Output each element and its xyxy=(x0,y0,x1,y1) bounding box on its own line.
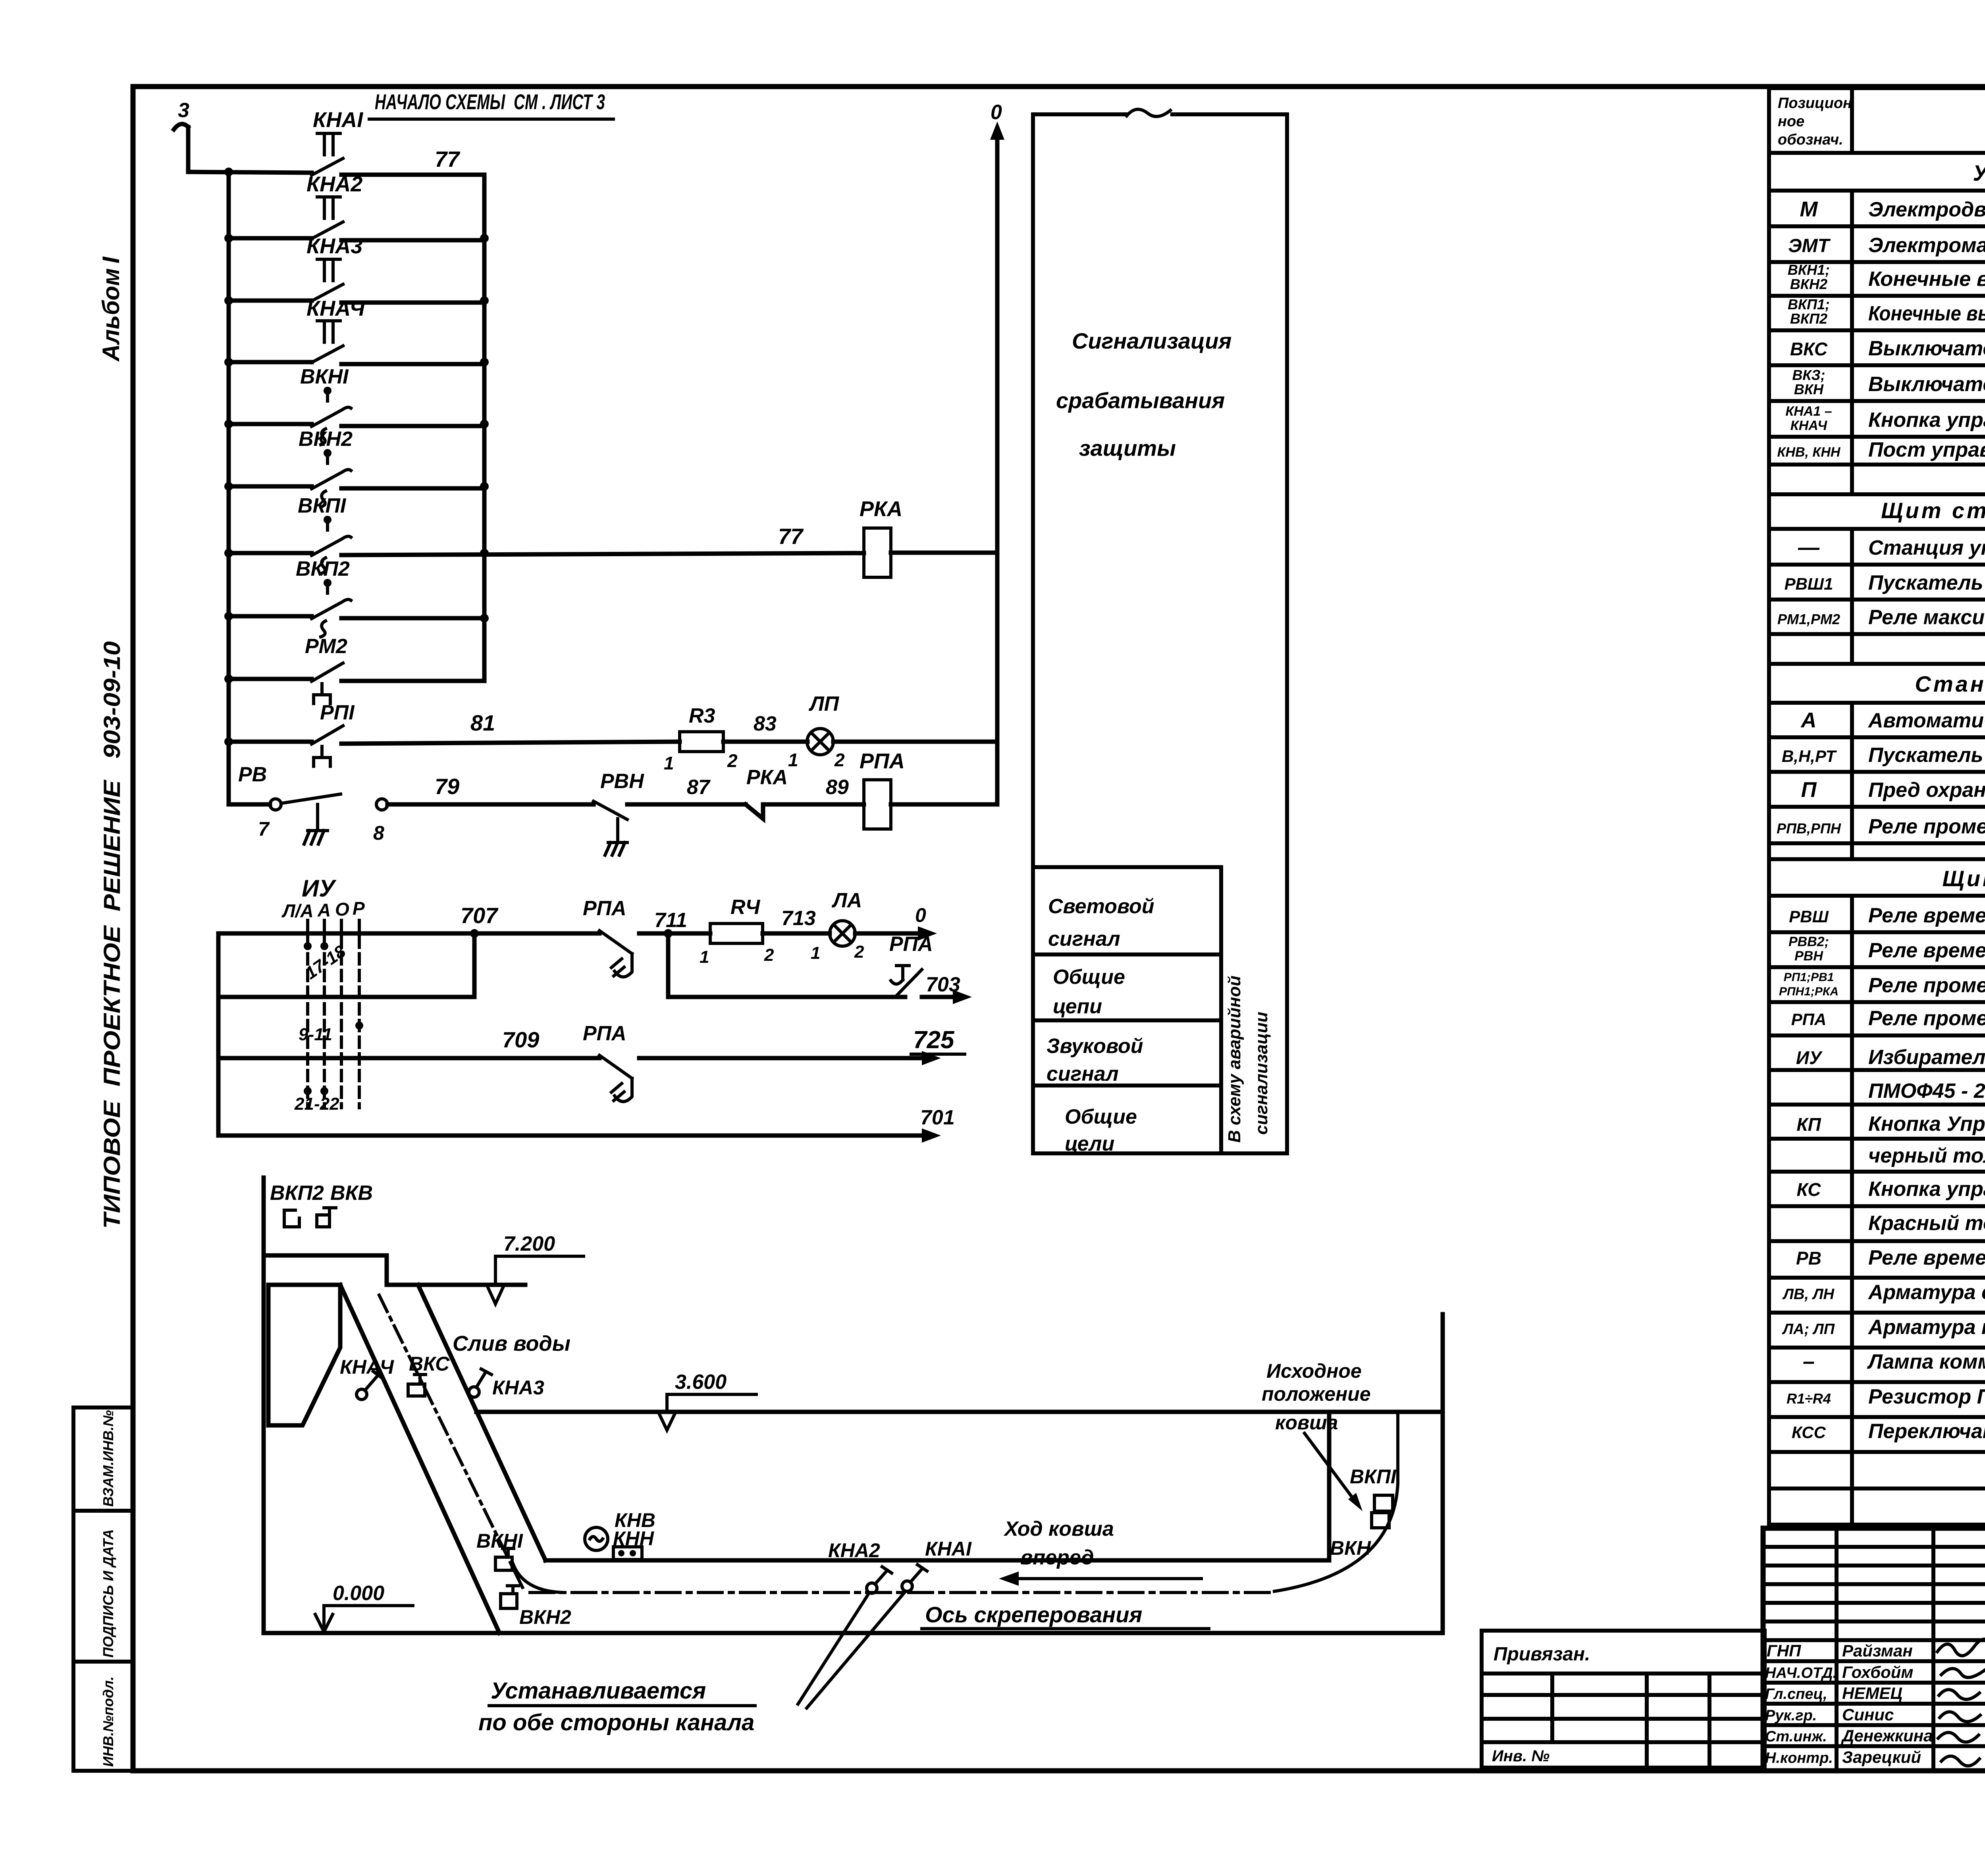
svg-text:Пред охранитель: Пред охранитель xyxy=(1868,779,1985,802)
svg-text:Привязан.: Привязан. xyxy=(1494,1644,1590,1665)
svg-text:ковша: ковша xyxy=(1275,1411,1338,1434)
svg-text:ВКП2: ВКП2 xyxy=(1790,310,1827,327)
svg-text:Избиратель управления: Избиратель управления xyxy=(1868,1046,1985,1069)
sketch: incline center dash-dot path xyxy=(379,1295,523,1589)
svg-text:КНВ, КНН: КНВ, КНН xyxy=(1777,445,1841,460)
svg-text:КНАЧ: КНАЧ xyxy=(1790,418,1827,433)
svg-text:РВН: РВН xyxy=(1794,949,1823,964)
svg-text:Слив воды: Слив воды xyxy=(453,1332,570,1355)
svg-text:–: – xyxy=(1803,1350,1815,1373)
svg-text:ПМОФ45 - 222555/П -Д12: ПМОФ45 - 222555/П -Д12 xyxy=(1868,1080,1985,1103)
svg-text:РПВ,РПН: РПВ,РПН xyxy=(1777,820,1841,837)
svg-text:В,Н,РТ: В,Н,РТ xyxy=(1782,747,1837,765)
svg-text:НАЧ.ОТД.: НАЧ.ОТД. xyxy=(1765,1665,1837,1681)
svg-text:ВЗАМ.ИНВ.№: ВЗАМ.ИНВ.№ xyxy=(100,1410,116,1507)
svg-text:Рук.гр.: Рук.гр. xyxy=(1765,1707,1817,1724)
svg-text:У механизма: У механизма xyxy=(1973,160,1985,185)
branch 711 down to 703 xyxy=(668,933,905,997)
sketch: canal inner bottom and right wall xyxy=(545,1412,1329,1560)
svg-text:Альбом I: Альбом I xyxy=(98,256,124,362)
svg-text:РВВ2;: РВВ2; xyxy=(1788,934,1829,949)
pointer lines to note xyxy=(798,1592,905,1708)
svg-text:КСС: КСС xyxy=(1792,1423,1826,1442)
wire rung KHA3 xyxy=(229,301,484,303)
svg-text:Щит станций управления: Щит станций управления xyxy=(1881,498,1985,523)
svg-text:Арматура коммутаторной лампы: Арматура коммутаторной лампы АСКМ xyxy=(1867,1316,1985,1339)
svg-text:обознач.: обознач. xyxy=(1778,131,1843,148)
svg-text:М: М xyxy=(1800,197,1818,221)
svg-text:РКА: РКА xyxy=(746,766,788,789)
svg-text:ВКНI: ВКНI xyxy=(300,365,349,388)
svg-text:П: П xyxy=(1801,778,1817,802)
svg-text:Конечные выключатели натяжки: Конечные выключатели натяжки ВК-200Б xyxy=(1868,268,1985,291)
svg-text:Пускатель магнитный: Пускатель магнитный xyxy=(1868,744,1985,767)
svg-text:защиты: защиты xyxy=(1079,436,1176,461)
svg-text:1: 1 xyxy=(811,943,820,963)
svg-text:РПН1;РКА: РПН1;РКА xyxy=(1779,985,1839,998)
svg-text:ЛП: ЛП xyxy=(808,692,840,715)
svg-text:Реле времени РВП72 -3221: Реле времени РВП72 -3221 xyxy=(1868,939,1985,962)
svg-text:89: 89 xyxy=(826,776,849,799)
svg-text:Реле времени РВП 72 -3222: Реле времени РВП 72 -3222 xyxy=(1868,904,1985,927)
svg-text:1: 1 xyxy=(788,750,798,770)
svg-text:713: 713 xyxy=(781,907,816,930)
svg-text:ИУ: ИУ xyxy=(1796,1047,1823,1068)
svg-text:ВКЗ;: ВКЗ; xyxy=(1792,367,1825,383)
svg-text:Резистор ПЭ-25: Резистор ПЭ-25 xyxy=(1868,1385,1985,1408)
wire rung VKP1 = net 77 to RKA coil xyxy=(229,553,864,555)
svg-text:3: 3 xyxy=(178,99,189,122)
svg-text:ИУ: ИУ xyxy=(302,875,337,902)
sketch: foundation pentagon xyxy=(268,1285,340,1425)
svg-text:1: 1 xyxy=(664,753,674,773)
svg-text:КНА1 –: КНА1 – xyxy=(1785,404,1832,419)
svg-text:Конечные выключатели переподъ: Конечные выключатели переподъема ВК-200Б xyxy=(1868,302,1985,325)
svg-text:цепи: цепи xyxy=(1053,995,1102,1018)
junction dots left rail xyxy=(224,168,233,176)
svg-text:Сигнализация: Сигнализация xyxy=(1072,328,1231,353)
svg-text:Переключатель ПМОФ90-111111: Переключатель ПМОФ90-111111/П-Д42 xyxy=(1868,1420,1985,1443)
svg-text:НАЧАЛО СХЕМЫ СМ . ЛИСТ 3: НАЧАЛО СХЕМЫ СМ . ЛИСТ 3 xyxy=(375,90,605,114)
svg-text:Исходное: Исходное xyxy=(1266,1360,1362,1382)
svg-text:0: 0 xyxy=(915,904,926,926)
svg-text:ИНВ.№подл.: ИНВ.№подл. xyxy=(100,1676,116,1767)
svg-text:КП: КП xyxy=(1796,1114,1821,1135)
wire row 709 xyxy=(218,1056,931,1060)
svg-text:707: 707 xyxy=(461,903,499,928)
svg-text:ВКВ: ВКВ xyxy=(330,1182,373,1205)
svg-text:КНА3: КНА3 xyxy=(492,1377,544,1399)
svg-text:Кнопка управления КЕ011-У3: Кнопка управления КЕ011-У3 xyxy=(1868,1178,1985,1201)
svg-text:Арматура сигнальной лампы АСКМ: Арматура сигнальной лампы АСКМ xyxy=(1867,1281,1985,1304)
wire row 707 xyxy=(218,931,710,936)
svg-text:ВКН2: ВКН2 xyxy=(1790,276,1827,292)
svg-text:РПА: РПА xyxy=(583,1022,626,1045)
svg-text:КНАЧ: КНАЧ xyxy=(340,1356,394,1378)
svg-text:709: 709 xyxy=(502,1027,539,1052)
svg-text:7.200: 7.200 xyxy=(503,1232,555,1255)
svg-text:ВКП1;: ВКП1; xyxy=(1788,296,1830,312)
svg-text:ЛА; ЛП: ЛА; ЛП xyxy=(1782,1321,1835,1338)
pushbutton post KNV KNN xyxy=(585,1527,608,1550)
svg-text:РМ2: РМ2 xyxy=(305,635,347,658)
right rail xyxy=(482,175,487,679)
left stamp strip xyxy=(73,1407,133,1771)
svg-text:Реле промежуточное РПУ·1-36: Реле промежуточное РПУ·1-363 xyxy=(1868,974,1985,997)
wire rung RP1 = net 81 to R3 and LP lamp xyxy=(229,742,680,744)
svg-text:НЕМЕЦ: НЕМЕЦ xyxy=(1842,1684,1902,1702)
wire row 701 xyxy=(218,1134,931,1138)
svg-text:Кнопка Управления КЕ-011У3: Кнопка Управления КЕ-011У3 xyxy=(1868,1112,1985,1136)
svg-text:РКА: РКА xyxy=(860,497,902,521)
svg-text:ВКП2: ВКП2 xyxy=(296,557,350,580)
svg-text:Денежкина: Денежкина xyxy=(1841,1726,1933,1745)
svg-text:О: О xyxy=(335,899,349,920)
svg-text:Ход ковша: Ход ковша xyxy=(1003,1517,1114,1541)
svg-text:положение: положение xyxy=(1262,1383,1371,1405)
svg-text:Станция управления: Станция управления xyxy=(1915,671,1985,696)
svg-text:КНАI: КНАI xyxy=(313,108,363,132)
svg-text:Выключатель конечный слива: Выключатель конечный слива ВК-200Б xyxy=(1868,337,1985,360)
svg-text:А: А xyxy=(1800,708,1817,732)
svg-text:Инв. №: Инв. № xyxy=(1492,1747,1549,1765)
privyazan box xyxy=(1482,1631,1765,1768)
IU closure dots xyxy=(304,942,312,950)
wire rung KHA2 xyxy=(229,238,484,240)
wire rung VKH1 xyxy=(229,424,484,426)
svg-text:9-11: 9-11 xyxy=(299,1025,332,1044)
svg-text:Выключатель конечный ВК-200: Выключатель конечный ВК-200Б xyxy=(1868,373,1985,396)
svg-text:2: 2 xyxy=(727,750,738,771)
svg-text:Электромагнит тормоза МО-100: Электромагнит тормоза МО-100Б xyxy=(1868,234,1985,257)
svg-text:ВКН2: ВКН2 xyxy=(519,1606,571,1628)
svg-text:срабатывания: срабатывания xyxy=(1056,388,1225,413)
svg-text:КНА2: КНА2 xyxy=(306,172,362,196)
IU column dashed lines xyxy=(306,920,309,1108)
svg-text:Зарецкий: Зарецкий xyxy=(1842,1748,1921,1766)
signal box rows xyxy=(1033,867,1221,1153)
svg-text:РПА: РПА xyxy=(1791,1010,1827,1029)
svg-text:А: А xyxy=(317,900,331,920)
svg-text:КНАЧ: КНАЧ xyxy=(306,297,366,320)
svg-text:Пост управления кнопочный ПКЕ: Пост управления кнопочный ПКЕ222-2У2 xyxy=(1868,438,1985,461)
svg-text:21-22: 21-22 xyxy=(294,1094,339,1114)
svg-text:0.000: 0.000 xyxy=(333,1582,384,1605)
wire rung RM2 xyxy=(229,679,484,681)
svg-text:ВКС: ВКС xyxy=(1790,339,1828,359)
svg-text:Пускатель магнитный ПМЕ-211: Пускатель магнитный ПМЕ-211 xyxy=(1868,571,1985,594)
svg-text:ВКН: ВКН xyxy=(1330,1537,1371,1559)
svg-text:ЛВ, ЛН: ЛВ, ЛН xyxy=(1782,1286,1835,1303)
svg-text:сигнализации: сигнализации xyxy=(1252,1012,1271,1135)
svg-text:ВКН: ВКН xyxy=(1794,381,1824,397)
svg-text:РВ: РВ xyxy=(1796,1248,1821,1269)
svg-text:Ст.инж.: Ст.инж. xyxy=(1765,1728,1827,1745)
svg-text:ВКС: ВКС xyxy=(409,1353,450,1375)
svg-text:87: 87 xyxy=(687,776,711,799)
svg-text:711: 711 xyxy=(654,909,687,932)
svg-text:РПА: РПА xyxy=(860,749,905,773)
IU left rail xyxy=(216,933,221,1136)
svg-text:РВ: РВ xyxy=(238,763,267,786)
svg-text:Реле максимального тока РЭВ: Реле максимального тока РЭВ-202 xyxy=(1868,606,1985,629)
svg-text:вперед: вперед xyxy=(1020,1546,1094,1569)
svg-text:ВКН1;: ВКН1; xyxy=(1788,262,1830,278)
svg-text:ГНП: ГНП xyxy=(1767,1641,1801,1660)
svg-text:КС: КС xyxy=(1797,1179,1821,1200)
sketch: canal top line 3.600 xyxy=(476,1410,1443,1414)
svg-text:Позицион: Позицион xyxy=(1778,95,1852,112)
svg-text:Кнопка управления ПКУ15-19.11: Кнопка управления ПКУ15-19.111-54У2 xyxy=(1868,409,1985,432)
svg-text:ЛА: ЛА xyxy=(831,889,862,912)
svg-text:ВКПI: ВКПI xyxy=(1350,1465,1397,1488)
svg-text:2: 2 xyxy=(834,750,845,770)
svg-text:ВКНI: ВКНI xyxy=(476,1530,523,1552)
svg-text:Гохбойм: Гохбойм xyxy=(1842,1663,1913,1681)
svg-text:ПОДПИСЬ И ДАТА: ПОДПИСЬ И ДАТА xyxy=(100,1529,116,1658)
svg-text:8: 8 xyxy=(373,822,384,844)
parts table grid xyxy=(1769,88,1985,1525)
svg-text:КНА3: КНА3 xyxy=(306,234,362,258)
svg-text:Ось скреперования: Ось скреперования xyxy=(925,1602,1142,1627)
svg-text:725: 725 xyxy=(913,1026,955,1054)
svg-text:Звуковой: Звуковой xyxy=(1046,1035,1143,1058)
svg-text:7: 7 xyxy=(258,818,270,840)
svg-text:Реле промежуточное ПМЕ-111: Реле промежуточное ПМЕ-111 xyxy=(1868,815,1985,838)
svg-text:—: — xyxy=(1798,536,1820,559)
svg-text:РВШ1: РВШ1 xyxy=(1785,575,1833,593)
svg-text:Устанавливается: Устанавливается xyxy=(491,1678,706,1704)
wire rung VKP2 xyxy=(229,616,484,618)
signatures xyxy=(1937,1639,1985,1766)
svg-text:черный толкатель „пуск“: черный толкатель „пуск“ xyxy=(1868,1144,1985,1167)
svg-text:Л/А: Л/А xyxy=(281,900,314,921)
svg-text:Общие: Общие xyxy=(1065,1105,1137,1128)
svg-text:ВКПI: ВКПI xyxy=(298,494,347,517)
svg-text:2: 2 xyxy=(764,945,774,965)
switch VKN2 xyxy=(501,1594,517,1608)
sketch: incline channel lines xyxy=(340,1285,545,1633)
svg-text:РП1;РВ1: РП1;РВ1 xyxy=(1784,971,1834,984)
svg-text:Н.контр.: Н.контр. xyxy=(1765,1750,1833,1766)
svg-text:ВКП2: ВКП2 xyxy=(270,1182,324,1205)
svg-text:3.600: 3.600 xyxy=(675,1371,727,1394)
wire 707 to arrow 0 xyxy=(855,931,927,936)
svg-text:R3: R3 xyxy=(689,704,715,727)
svg-text:Райзман: Райзман xyxy=(1842,1641,1913,1660)
svg-text:Щит Управления: Щит Управления xyxy=(1942,866,1985,891)
svg-text:Реле времени ВС -10-34: Реле времени ВС -10-34 xyxy=(1868,1246,1985,1269)
svg-text:цели: цели xyxy=(1065,1132,1114,1155)
sketch: bucket end wall and curve xyxy=(1274,1412,1398,1591)
svg-text:Электродвигатель: Электродвигатель xyxy=(1868,198,1985,221)
svg-text:РВШ: РВШ xyxy=(1789,907,1829,926)
svg-text:1: 1 xyxy=(700,947,709,967)
svg-text:РМ1,РМ2: РМ1,РМ2 xyxy=(1777,611,1840,627)
svg-text:ВКН2: ВКН2 xyxy=(299,428,353,451)
svg-text:Гл.спец,: Гл.спец, xyxy=(1765,1686,1827,1702)
signal box outline xyxy=(1033,114,1287,1153)
svg-text:сигнал: сигнал xyxy=(1046,1062,1119,1085)
svg-text:83: 83 xyxy=(754,712,777,735)
svg-text:77: 77 xyxy=(435,147,461,172)
svg-text:Станция управления: Станция управления xyxy=(1868,536,1985,559)
svg-text:701: 701 xyxy=(920,1106,955,1129)
svg-text:77: 77 xyxy=(778,524,804,549)
svg-text:2: 2 xyxy=(854,942,864,962)
svg-text:по обе стороны канала: по обе стороны канала xyxy=(478,1710,754,1735)
svg-text:R1÷R4: R1÷R4 xyxy=(1786,1390,1831,1407)
svg-text:Р: Р xyxy=(353,898,365,919)
svg-text:81: 81 xyxy=(470,710,495,735)
left rail xyxy=(227,172,231,804)
svg-text:RЧ: RЧ xyxy=(730,896,761,919)
svg-text:Лампа коммутаторная КМ-5: Лампа коммутаторная КМ-5 xyxy=(1867,1350,1985,1373)
wire rung VKH2 xyxy=(229,486,484,488)
svg-text:КНАI: КНАI xyxy=(925,1538,972,1560)
wire net 79 xyxy=(387,802,594,807)
sketch: scraper axis dash-dot xyxy=(530,1591,1276,1594)
svg-text:Общие: Общие xyxy=(1053,966,1125,989)
svg-text:ное: ное xyxy=(1778,113,1804,130)
title block outer xyxy=(1763,1528,1985,1771)
svg-text:Реле промежуточное РП-256: Реле промежуточное РП-256 xyxy=(1868,1007,1985,1030)
svg-text:Световой: Световой xyxy=(1048,895,1154,918)
svg-text:РПА: РПА xyxy=(889,933,933,956)
svg-text:РПI: РПI xyxy=(320,701,355,724)
svg-text:сигнал: сигнал xyxy=(1048,927,1120,951)
svg-text:79: 79 xyxy=(435,774,459,799)
branch down to row 2 xyxy=(472,933,477,997)
svg-text:РПА: РПА xyxy=(583,897,626,920)
svg-text:Синис: Синис xyxy=(1842,1705,1894,1724)
wire row 2 left xyxy=(218,995,474,999)
svg-text:ТИПОВОЕ ПРОЕКТНОЕ РЕШЕНИЕ: ТИПОВОЕ ПРОЕКТНОЕ РЕШЕНИЕ 903-09-10 xyxy=(99,641,125,1229)
svg-text:0: 0 xyxy=(991,101,1002,124)
svg-text:РВН: РВН xyxy=(600,770,644,793)
sketch: building wall left xyxy=(264,1178,1443,1633)
svg-text:Автоматический выключатель: Автоматический выключатель xyxy=(1867,709,1985,732)
title block revision grid xyxy=(1763,1528,1985,1771)
wire: top rung to net 77 xyxy=(188,172,484,175)
wire rung KHA4 xyxy=(229,362,484,364)
svg-text:Красный толкатель „ стоп“: Красный толкатель „ стоп“ xyxy=(1868,1212,1985,1235)
svg-text:ЭМТ: ЭМТ xyxy=(1788,235,1831,256)
svg-text:КНА2: КНА2 xyxy=(828,1539,880,1562)
svg-text:В схему аварийной: В схему аварийной xyxy=(1225,976,1244,1143)
